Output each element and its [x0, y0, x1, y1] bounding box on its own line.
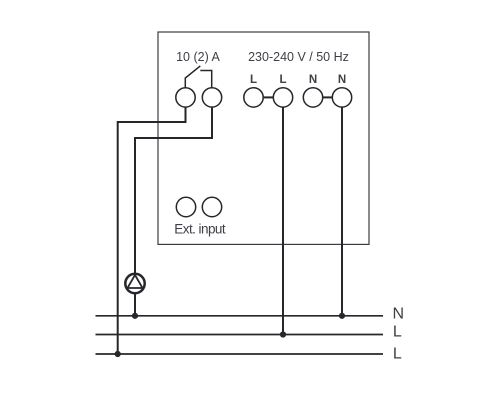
relay contact switch	[185, 66, 211, 88]
bus line N	[96, 315, 384, 317]
link N1-N2	[323, 96, 333, 98]
svg-text:N: N	[338, 74, 346, 86]
junction N-terminal-N	[339, 313, 345, 319]
wire pump to N bus	[134, 293, 136, 316]
mains terminal L2	[273, 88, 292, 107]
pump M1	[125, 274, 144, 293]
ext input terminal left	[176, 197, 195, 216]
svg-text:L: L	[279, 74, 286, 86]
bus line L2	[96, 353, 384, 355]
svg-text:230-240 V / 50 Hz: 230-240 V / 50 Hz	[248, 50, 349, 64]
wire N terminal to N bus	[341, 107, 343, 316]
relay terminal right	[202, 88, 221, 107]
relay terminal left	[176, 88, 195, 107]
ext input terminal right	[202, 197, 221, 216]
junction L-terminal-L	[280, 331, 286, 337]
svg-text:N: N	[393, 306, 405, 323]
wire relay-right to pump	[135, 107, 212, 274]
device box	[158, 32, 369, 244]
junction relay-L	[115, 351, 121, 357]
mains terminal L1	[244, 88, 263, 107]
mains terminal N1	[303, 88, 322, 107]
svg-text:L: L	[393, 345, 402, 362]
bus line L1	[96, 334, 384, 336]
mains terminal N2	[332, 88, 351, 107]
link L1-L2	[263, 96, 273, 98]
svg-text:10 (2) A: 10 (2) A	[176, 50, 220, 64]
wire relay-left to L bus	[118, 107, 186, 354]
svg-text:L: L	[250, 74, 257, 86]
wire L terminal to L bus	[282, 107, 284, 334]
svg-text:N: N	[309, 74, 317, 86]
junction pump-N	[132, 313, 138, 319]
svg-text:Ext. input: Ext. input	[174, 221, 226, 236]
svg-text:L: L	[393, 324, 402, 341]
